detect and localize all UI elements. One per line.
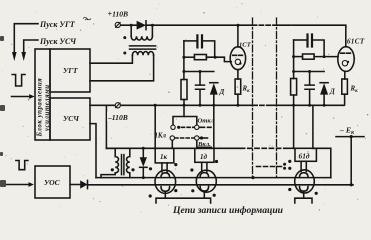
resistor box 61д	[295, 148, 316, 161]
capacitor C4 leads	[309, 72, 311, 106]
transformer Тр1 primary leads	[131, 25, 152, 36]
wire: Пуск УГТ input line	[14, 24, 38, 52]
transformer Тр1 primary winding	[131, 36, 152, 40]
switch 1Кл moving contact dot upper	[177, 126, 180, 129]
resistor R4 vertical (right unit)	[291, 79, 297, 96]
block УГТ	[50, 49, 90, 92]
tube 61д envelope (bottom right)	[295, 170, 315, 193]
diode Д (right unit, pointing up)	[320, 82, 328, 84]
svg-text:УОС: УОС	[44, 178, 61, 187]
diode Д1 (left unit, pointing up)	[210, 82, 218, 84]
tube 1д bottom stub	[164, 191, 166, 198]
svg-text:61д: 61д	[299, 152, 310, 161]
svg-text:УСЧ: УСЧ	[63, 114, 79, 123]
transformer Тр1 core	[130, 46, 156, 49]
pulse symbol lower input	[16, 161, 28, 170]
svg-text:Цепи записи информации: Цепи записи информации	[172, 205, 284, 216]
transformer Тр2 core	[122, 155, 124, 175]
tube 61д inner cathode cup	[300, 187, 309, 192]
wire: arrow into Блок box	[12, 96, 30, 98]
tube 1СТ cathode lead	[237, 70, 239, 79]
tube 1СТ anode lead	[237, 25, 239, 47]
diode Д1 left unit triangle (up)	[210, 83, 218, 94]
tube middle inner anode arch	[200, 173, 209, 178]
block Блок управления усилителями	[35, 49, 50, 140]
switch 1Кл contact dashes lower row	[175, 137, 194, 139]
wire: 1д box stub to tube	[202, 162, 207, 171]
pin dots around middle tube	[190, 168, 193, 171]
tube 61СТ grid dashes	[341, 52, 351, 54]
wire: grid chain through rail to switch bracket	[183, 100, 185, 117]
tube 61СТ cathode lead	[344, 71, 346, 79]
heater bar under bottom-left tubes	[156, 198, 211, 203]
wire: -110V rail	[120, 104, 253, 106]
wire: dashed section of -110V rail	[253, 104, 272, 106]
wire: resistor to tube 1СТ grid	[206, 57, 231, 61]
switch 1Кл upper contacts	[171, 125, 175, 129]
tube 1д inner cathode cup	[161, 187, 170, 192]
svg-text:1д: 1д	[200, 153, 208, 161]
tube 1СТ envelope	[230, 47, 245, 70]
transformer Тр1 polarity dots	[123, 36, 126, 39]
tube 1СТ cathode circle	[235, 59, 240, 64]
svg-text:Пуск УСЧ: Пуск УСЧ	[39, 37, 77, 46]
arrowhead into УОС	[29, 182, 34, 187]
transformer Тр2 left winding	[101, 148, 119, 177]
wire: arrow into УОС box	[5, 184, 29, 186]
wire: -110V drop to lower transformer (behind label)	[105, 105, 107, 148]
wire: cathode network horizontal (right unit)	[294, 71, 325, 73]
wire: anode loop of 61д tube	[313, 148, 331, 177]
svg-text:1к: 1к	[160, 153, 168, 161]
wire: rail to 1к box	[154, 105, 156, 148]
diode Д3 cathode bar	[87, 180, 89, 188]
arrowhead into Блок	[29, 94, 34, 99]
diode Д2 in series (pointing down)	[142, 148, 144, 157]
wire: switch bracket	[173, 117, 197, 126]
wire: -Ек terminal bar	[336, 136, 364, 138]
chain line (repetition fold) left	[252, 18, 254, 179]
wire: grid RC to resistor (right)	[294, 56, 303, 58]
wire: grid RC to resistor	[184, 56, 195, 58]
junction dots left RC network	[182, 56, 185, 59]
capacitor C4 plates	[305, 85, 314, 89]
junction dots on -110V rail	[154, 104, 157, 107]
wire: rail down to 61д box right corner	[312, 105, 314, 148]
tube 61СТ envelope	[338, 47, 354, 72]
wire: Пуск УСЧ input line	[24, 40, 38, 52]
wire: top bus right portion down to tube 61СТ	[277, 25, 346, 47]
switch 1Кл lower contacts	[170, 136, 174, 140]
tube 1д inner anode arch	[161, 173, 170, 178]
pin dots around tube 61д	[288, 160, 291, 163]
svg-text:Откл: Откл	[198, 118, 215, 125]
junction dot -Ек to bus	[350, 183, 353, 186]
arrowheads and filled parts	[12, 21, 353, 198]
resistor R2 vertical (left unit)	[181, 80, 187, 100]
tube 1СТ inner dot	[239, 62, 241, 64]
wire: 1к box stub to tube	[162, 163, 167, 172]
wire: top +110V bus to tubes	[146, 24, 253, 26]
wire: УСЧ drop to cathode bus	[90, 124, 96, 178]
wire: -110V rail from УСЧ to terminal	[90, 104, 115, 106]
wire: УОС output to diode	[70, 184, 80, 186]
tube 61д bottom stub	[303, 191, 305, 198]
resistor R3 grid (horizontal, right)	[303, 54, 315, 59]
wire: cathode network horizontal (left unit)	[184, 71, 214, 73]
tube 61д inner anode arch	[300, 173, 309, 178]
capacitor C1 right wire	[203, 41, 214, 57]
svg-text:Д: Д	[329, 88, 335, 96]
capacitor C3 right wire	[313, 40, 324, 56]
wire: dashed section of grid bus L2	[241, 147, 290, 149]
wire: Тр1 secondary left lead to УГТ	[90, 55, 132, 63]
resistor box 1к	[155, 148, 174, 163]
resistor Rк (right)	[342, 79, 348, 94]
capacitor C2 plates	[196, 85, 205, 89]
transformer Тр2 polarity dots	[111, 168, 114, 171]
wire: 61д box stub to tube	[301, 161, 306, 171]
terminal circle -110V	[115, 103, 120, 108]
resistor Rк (left)	[235, 79, 241, 94]
tube 61СТ inner dot	[347, 61, 349, 63]
junction dots right RC network	[292, 55, 295, 58]
wire: output bus L5	[87, 184, 353, 186]
tube 1СТ grid dashes	[233, 54, 243, 56]
svg-text:усилителями: усилителями	[44, 84, 51, 132]
block УСЧ	[50, 98, 90, 140]
pulse symbol upper input	[12, 75, 25, 87]
capacitor C3 plates	[308, 35, 313, 47]
wire: -Ек vertical to bus	[350, 137, 352, 185]
switch 1Кл moving contact dot lower	[200, 136, 203, 139]
wire: -110V rail right portion	[272, 104, 344, 106]
arrowhead Пуск УСЧ	[21, 52, 26, 61]
junction dot -Ек bar	[350, 135, 353, 138]
svg-text:Д: Д	[219, 88, 225, 96]
wire: rail down to 1д box corner	[213, 105, 215, 148]
pin dots around tube 1д	[149, 167, 152, 170]
repetition dots at L3 end	[283, 163, 286, 166]
svg-text:61СТ: 61СТ	[347, 38, 365, 46]
wire: resistor to tube 61СТ grid	[314, 56, 338, 58]
tube (middle bottom) envelope	[196, 170, 216, 192]
svg-text:+110В: +110В	[108, 10, 129, 19]
heater bar under 61д tube	[295, 198, 312, 203]
resistor R1 grid (horizontal)	[194, 55, 206, 60]
diode Д3 УОС triangle	[80, 180, 87, 188]
wire: grid node vertical (left unit)	[183, 41, 185, 80]
tube 1д envelope (bottom left)	[155, 170, 176, 193]
svg-text:–110В: –110В	[107, 113, 128, 122]
diode D1 triangle	[137, 21, 146, 30]
transformer Тр1 secondary winding	[132, 51, 153, 55]
label squiggle	[83, 17, 91, 20]
svg-text:Блок управления: Блок управления	[37, 78, 44, 138]
wire: cathode bus L4	[96, 177, 331, 179]
svg-text:1Кл: 1Кл	[155, 133, 167, 140]
tube 61СТ cathode circle	[342, 61, 347, 66]
open elements drawn over	[115, 22, 199, 140]
arrowhead Пуск УГТ	[12, 52, 17, 61]
capacitor C1 left wire	[184, 40, 196, 42]
block УОС	[35, 166, 70, 198]
wire: grid node vertical (right unit)	[293, 40, 295, 79]
transformer Тр2 right winding	[127, 148, 130, 177]
resistor box 1д	[195, 148, 214, 162]
wire: grid bus L2 right stub to 61д box	[289, 147, 295, 149]
junction dots top bus	[130, 24, 133, 27]
wire: +110V feed to diode and transformer	[120, 24, 136, 26]
capacitor C3 left wire	[294, 39, 307, 41]
wire: grid bus L2	[106, 147, 240, 149]
wire: switch lower contacts to grid bus	[172, 140, 197, 148]
tube middle inner cathode cup	[200, 186, 209, 191]
diode D1 cathode bar	[145, 21, 147, 30]
terminal circle +110V	[115, 22, 120, 27]
diode Д right unit triangle (up)	[320, 83, 328, 94]
capacitor C2 leads	[199, 72, 201, 106]
chain line (repetition fold) right	[276, 18, 278, 179]
svg-text:Пуск УГТ: Пуск УГТ	[39, 20, 76, 29]
diode Д2 triangle (down)	[140, 157, 147, 167]
capacitor C1 plates	[197, 35, 202, 47]
label -110В	[107, 112, 134, 122]
svg-text:УГТ: УГТ	[63, 66, 78, 75]
wire: dashed repetition line L3	[257, 166, 283, 168]
tube middle bottom stub	[203, 191, 205, 198]
junction dots grid bus	[142, 147, 145, 150]
switch 1Кл contact dashes upper row	[182, 126, 195, 128]
wire: dashed section of top bus	[253, 24, 278, 26]
svg-text:1СТ: 1СТ	[239, 42, 252, 49]
wire: Тр1 secondary right lead to УГТ	[90, 55, 154, 81]
